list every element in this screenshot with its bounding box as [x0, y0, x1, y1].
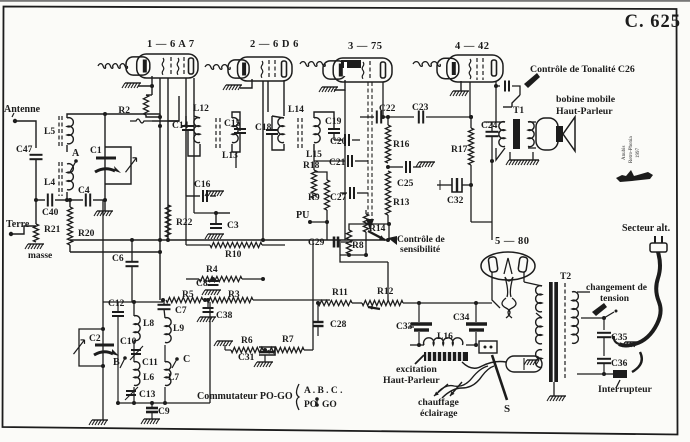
switch A arm — [70, 161, 76, 172]
inductor L5 — [67, 118, 73, 144]
wire L13 bottom — [232, 143, 240, 152]
potentiometer R14 wiper arrow — [368, 231, 385, 240]
junction x476 y303 — [474, 301, 478, 305]
svg-text:1 — 6 A 7: 1 — 6 A 7 — [147, 39, 195, 50]
svg-text:C36: C36 — [611, 359, 628, 369]
resistor R3 — [207, 297, 253, 302]
svg-text:Anubis: Anubis — [622, 146, 627, 161]
resistor R21 — [33, 224, 38, 242]
heater twisted pair V2 — [205, 65, 230, 70]
svg-text:C25: C25 — [397, 179, 414, 189]
svg-text:C6: C6 — [112, 254, 124, 264]
tube V2 plate — [282, 61, 287, 77]
switch C contact — [175, 357, 179, 361]
wire V2 plate lead — [283, 81, 285, 116]
junction x216 y213 — [214, 211, 218, 215]
svg-text:Terre: Terre — [6, 219, 30, 230]
wire C23 right — [426, 116, 471, 118]
tube V1 grid wavy 2 — [177, 58, 179, 75]
capacitor C9 — [146, 407, 158, 410]
wire L4 bottom — [66, 192, 68, 200]
svg-text:L6: L6 — [143, 373, 154, 383]
tube V1 grid wavy electrode — [162, 58, 164, 75]
junction R2 bus — [158, 115, 162, 119]
loudspeaker — [536, 118, 558, 150]
junction x419 y303 — [417, 301, 421, 305]
svg-text:L5: L5 — [44, 127, 55, 137]
C10 frame — [133, 341, 135, 344]
junction R20 top — [68, 198, 72, 202]
wire R7 right — [304, 349, 313, 351]
interrupteur pointer — [616, 380, 620, 388]
junction C28 top — [316, 301, 320, 305]
wire x160 long — [159, 114, 161, 300]
junction R14 bot — [364, 253, 368, 257]
wire C28 up — [317, 303, 319, 322]
capacitor C3 — [210, 223, 222, 225]
tube V4 grid dashed 1 — [476, 58, 478, 80]
T2 sec wires — [536, 313, 542, 318]
junction V1 cathode — [150, 84, 154, 88]
junction L16 left — [417, 343, 421, 347]
junction C9 top — [150, 401, 154, 405]
wire C16 right — [210, 195, 216, 197]
wire L15 top — [314, 112, 334, 129]
transformer T1 core — [513, 119, 520, 149]
inductor L6 — [134, 362, 140, 386]
inductor L4 — [67, 164, 73, 190]
C2 trimmer — [74, 340, 85, 354]
junction x168 y240 — [166, 238, 170, 242]
T2 primary — [572, 292, 578, 344]
wire T1 gnd a — [509, 152, 511, 160]
wire C9 leads — [151, 403, 153, 408]
svg-text:Secteur alt.: Secteur alt. — [622, 223, 671, 234]
junction antenna bottom — [34, 198, 38, 202]
svg-text:S: S — [504, 403, 510, 415]
wire to interrupteur — [604, 373, 613, 375]
tube V2 envelope — [238, 57, 293, 81]
svg-text:R12: R12 — [377, 287, 394, 297]
wire R4 left — [186, 278, 199, 280]
wire V2 lead x268 — [267, 81, 269, 112]
logo anubis silhouette — [616, 170, 653, 182]
wire C34 down — [475, 332, 477, 345]
wire T1 prim bot — [496, 148, 505, 160]
svg-text:L8: L8 — [143, 319, 154, 329]
svg-text:C3: C3 — [227, 221, 239, 231]
junction V2 x263 y240 — [261, 238, 265, 242]
svg-text:C4: C4 — [78, 186, 90, 196]
junction L6 bot — [132, 401, 136, 405]
svg-text:C15: C15 — [224, 119, 241, 129]
resistor R14 — [363, 214, 368, 232]
capacitor C7 — [158, 304, 171, 306]
svg-text:bobine mobile: bobine mobile — [556, 94, 616, 105]
lamp twisted lead — [462, 362, 506, 369]
wire C27 right — [357, 192, 368, 194]
wire C12 up — [117, 302, 119, 312]
mains plug — [650, 243, 667, 252]
tube V1 plate — [189, 58, 194, 74]
svg-text:L16: L16 — [437, 332, 453, 342]
svg-text:C1: C1 — [90, 146, 102, 156]
wire R9 top — [314, 172, 327, 180]
C1 frame right — [105, 147, 131, 184]
svg-text:C38: C38 — [216, 311, 233, 321]
svg-text:masse: masse — [28, 251, 52, 261]
switch tone control — [512, 95, 520, 107]
capacitor C23 — [418, 111, 420, 124]
tube V3 plate — [381, 62, 386, 78]
tube V5 filament — [504, 258, 512, 274]
ground below C2 — [92, 419, 108, 421]
svg-text:Antenne: Antenne — [4, 104, 41, 115]
inductor L14 primary — [278, 118, 284, 143]
PO-GO dumbbell — [315, 397, 319, 401]
wire bus y240 — [70, 239, 388, 241]
wire x194 down — [193, 116, 195, 213]
T2 sec top wire — [524, 282, 542, 286]
resistor R11 — [318, 300, 352, 305]
svg-text:3 — 75: 3 — 75 — [348, 41, 383, 52]
svg-text:C32: C32 — [447, 196, 464, 206]
svg-text:C13: C13 — [139, 390, 156, 400]
wire R6 left — [224, 345, 226, 350]
ground C3 — [208, 233, 224, 235]
ground C8 — [205, 289, 221, 291]
resistor R9 — [324, 180, 329, 210]
wire C31 gnd — [264, 355, 266, 362]
capacitor C10 trimmer — [131, 349, 141, 351]
connector box — [479, 341, 497, 353]
svg-text:C11: C11 — [142, 358, 158, 368]
wire tap down — [603, 318, 605, 330]
lamp hatch — [527, 359, 539, 361]
junction C12 bot — [116, 401, 120, 405]
tube V5 envelope — [481, 252, 535, 280]
capacitor C22 — [376, 111, 378, 124]
resistor R8 — [346, 230, 351, 254]
ground C16 — [208, 190, 224, 192]
wire C6 up — [131, 240, 133, 262]
wire V3 lead x345 — [344, 90, 346, 240]
svg-text:C40: C40 — [42, 208, 59, 218]
capacitor C47 — [30, 154, 43, 156]
wire L9-L7 — [164, 345, 166, 362]
switch C arm — [172, 359, 177, 368]
svg-text:C9: C9 — [158, 407, 170, 417]
wire C40 left — [36, 199, 45, 201]
svg-text:chauffage: chauffage — [418, 397, 459, 408]
svg-text:L7: L7 — [168, 373, 179, 383]
junction C25 — [386, 165, 390, 169]
chauffage arrow 1 — [434, 384, 448, 396]
svg-text:C27: C27 — [330, 193, 347, 203]
wire R8 bottom row — [340, 254, 366, 256]
capacitor C33 symbol — [411, 322, 432, 325]
svg-text:R22: R22 — [176, 218, 193, 228]
T2 secondary mid — [536, 318, 542, 344]
wire y302 osc — [103, 301, 163, 303]
svg-text:R6: R6 — [241, 336, 253, 346]
svg-text:Contrôle de Tonalité C26: Contrôle de Tonalité C26 — [530, 64, 635, 75]
V5 filament twisted leads — [505, 277, 513, 297]
wire C20 right — [352, 139, 360, 141]
wire x389 y224-240 — [388, 224, 390, 240]
svg-text:C47: C47 — [16, 145, 33, 155]
svg-text:C31: C31 — [238, 353, 255, 363]
wire R2 bottom to bus — [146, 115, 160, 117]
PU terminal — [308, 220, 312, 224]
heater twisted pair V1 — [98, 64, 127, 69]
capacitor C4 — [85, 194, 87, 207]
junction y126 — [158, 124, 162, 128]
wire C4 right — [93, 199, 105, 201]
resistor R18 vertical — [311, 170, 316, 198]
resistor R2 — [143, 95, 148, 115]
wire C8 up — [212, 279, 214, 281]
junction R8 bot — [347, 253, 351, 257]
V5 anode left lead — [492, 272, 500, 308]
C2 frame — [79, 329, 103, 366]
wire HT from R12 row — [476, 302, 492, 304]
wire R4 right — [242, 278, 263, 280]
tube V3 grid dashed — [369, 61, 371, 80]
svg-text:5 — 80: 5 — 80 — [495, 236, 530, 247]
resistor R12 — [362, 300, 403, 305]
resistor R13 — [385, 171, 390, 215]
wire x313 down — [312, 240, 314, 350]
capacitor C32 symbol — [452, 178, 462, 192]
junction tap — [602, 316, 606, 320]
wire C25 right — [413, 166, 421, 168]
commutateur brace — [297, 384, 300, 410]
svg-text:C12: C12 — [108, 299, 125, 309]
wire L12 bottom — [188, 140, 200, 156]
junction C8 top — [211, 277, 215, 281]
L5 core dashes — [58, 116, 60, 146]
wire C25 left — [388, 166, 403, 168]
tube V2 grid dashed 1 — [268, 60, 270, 79]
wire R4 top link — [216, 212, 230, 214]
capacitor C26 — [504, 81, 506, 92]
svg-text:C34: C34 — [453, 313, 470, 323]
C1 trimmer — [126, 158, 137, 172]
switch B arm — [120, 358, 125, 368]
wire R10 left — [186, 244, 210, 246]
wire x186 down — [185, 116, 187, 196]
wire C1 gnd — [104, 200, 106, 211]
T2 primary tap wire — [581, 317, 604, 319]
svg-text:R11: R11 — [332, 288, 348, 298]
junction C2 top — [101, 327, 105, 331]
wire C7-L9 — [164, 309, 165, 318]
svg-text:C: C — [183, 354, 190, 365]
svg-text:changement de: changement de — [586, 283, 647, 293]
capacitor C18 — [266, 129, 278, 131]
svg-text:R13: R13 — [393, 198, 410, 208]
T2 primary top wire — [577, 291, 590, 293]
ground below R21 — [28, 243, 44, 245]
wire C9 gnd — [151, 412, 153, 419]
wire R9 down — [326, 222, 328, 240]
junction L4 bottom — [65, 198, 69, 202]
capacitor C35 — [597, 332, 611, 334]
wire R11-R12 — [352, 302, 362, 304]
svg-text:R21: R21 — [44, 225, 61, 235]
capacitor C29 — [333, 237, 336, 248]
svg-text:GO: GO — [322, 400, 337, 410]
chauffage arrow 2 — [450, 382, 462, 396]
wire V3 plate lead down — [382, 82, 384, 117]
wire y114 to bus — [105, 113, 160, 115]
svg-text:T1: T1 — [513, 106, 524, 116]
wire V1 lead down x168 — [167, 78, 169, 240]
sensibilite pointer arrow — [388, 236, 397, 245]
wire C7 up — [163, 300, 165, 305]
T2 secondary top — [536, 286, 542, 312]
junction L16 right — [474, 343, 478, 347]
junction C24 bottom — [490, 159, 494, 163]
junction L8 top — [132, 300, 136, 304]
T2 core dashes — [564, 283, 566, 380]
capacitor C14 — [182, 125, 194, 127]
wire C19-C20 — [333, 133, 335, 140]
wire C6 down — [131, 266, 133, 302]
wire C27 left — [340, 192, 347, 194]
R6 left gnd — [217, 340, 233, 342]
capacitor C31 symbol — [259, 347, 275, 355]
svg-text:C21: C21 — [329, 158, 346, 168]
IFT2 core a — [297, 118, 299, 150]
tube V3 dark diode plates — [341, 60, 361, 68]
T2 primary bottom wire — [577, 373, 604, 375]
tube V2 grid wavy — [261, 61, 263, 78]
wire x103 osc — [102, 200, 104, 420]
wire x186 mid — [185, 196, 187, 245]
wire C28 down — [317, 326, 319, 336]
wire C36 down — [603, 364, 605, 374]
svg-text:R17: R17 — [451, 145, 468, 155]
capacitor C28 — [313, 321, 324, 323]
wire R16 top — [387, 117, 389, 125]
junction C2 bottom — [101, 364, 105, 368]
capacitor C12 — [112, 311, 124, 313]
wire PU — [310, 221, 327, 223]
cable branch to interrupteur — [632, 352, 642, 372]
junction R4 x263 — [261, 277, 265, 281]
antenna terminal — [13, 119, 17, 123]
wire R6l — [225, 349, 231, 351]
wire T1 sec top — [528, 121, 536, 123]
resistor R5 — [166, 297, 203, 302]
svg-text:R8: R8 — [352, 241, 364, 251]
wire R8 bottom — [348, 254, 350, 255]
S pointer line — [492, 355, 507, 400]
L5 core dashes 2 — [61, 116, 63, 146]
T1 primary — [499, 122, 505, 147]
wire R12 right — [403, 302, 476, 304]
svg-text:Retro-Phonia: Retro-Phonia — [629, 136, 634, 163]
wire L8-L6 — [133, 344, 135, 362]
tube V2 grid dashed 2 — [274, 60, 276, 79]
svg-text:Haut-Parleur: Haut-Parleur — [556, 106, 613, 117]
svg-text:Haut-Parleur: Haut-Parleur — [383, 375, 440, 386]
wire R14 top — [365, 210, 367, 214]
capacitor C1 variable — [96, 157, 116, 160]
svg-text:R20: R20 — [78, 229, 95, 239]
svg-text:B: B — [113, 357, 120, 368]
svg-text:C. 625: C. 625 — [625, 12, 681, 32]
wire R17 top — [470, 117, 472, 128]
resistor R17 — [468, 128, 473, 165]
tube V3 envelope — [333, 58, 392, 82]
page top edge strip — [0, 0, 690, 2]
junction x105 y114 — [103, 112, 107, 116]
resistor R10 — [210, 242, 262, 247]
wire R14 bottom — [365, 232, 367, 255]
junction R5R3 — [203, 298, 207, 302]
capacitor C40 — [47, 194, 49, 207]
resistor R20 — [67, 207, 72, 245]
junction C7 top — [161, 298, 165, 302]
wire V4 grid lead — [469, 82, 471, 117]
wire C34 up — [475, 303, 477, 322]
wire C35 hatch — [611, 343, 631, 345]
wire antenna to C47 — [15, 121, 36, 148]
tube V5 anode right — [518, 257, 528, 273]
svg-text:excitation: excitation — [396, 364, 437, 375]
junction R16 top — [386, 115, 390, 119]
wire terre — [11, 226, 36, 234]
wire L6 down — [133, 387, 135, 403]
svg-text:C16: C16 — [194, 180, 211, 190]
svg-text:Contrôle de: Contrôle de — [397, 235, 445, 245]
wire L5 bottom — [66, 145, 68, 152]
R12 wiper arrow — [368, 307, 380, 309]
svg-text:L9: L9 — [173, 324, 184, 334]
capacitor C38 — [203, 307, 214, 309]
wire V1 lead k down — [151, 86, 153, 95]
wire L8 top — [133, 302, 135, 316]
wire bottom osc row — [118, 402, 210, 404]
wire L15 bot — [313, 144, 315, 152]
wire R20 to bus — [70, 251, 160, 253]
tube V4 grid dashed 2 — [482, 58, 484, 80]
wire L12 top — [194, 116, 200, 118]
wire L7 down — [164, 387, 166, 403]
tube V1 grid dashed 1 — [170, 57, 172, 76]
capacitor C25 — [405, 161, 407, 173]
wire T1 gnd b — [532, 152, 534, 160]
wire C38 up — [207, 300, 209, 308]
wire C21 left — [314, 160, 345, 162]
wire C24 top link — [484, 121, 496, 123]
wire L4-C4 — [67, 199, 83, 201]
AVC arrowhead — [366, 219, 374, 230]
wire C22 left — [360, 116, 374, 118]
svg-text:C18: C18 — [255, 123, 272, 133]
wire grid hop — [130, 119, 152, 123]
wire C21 right — [355, 160, 368, 162]
wire V4 cathode gnd — [460, 81, 462, 91]
wire C35 down — [603, 338, 605, 356]
switch B contact — [123, 356, 127, 360]
wire bracket x179 — [168, 96, 179, 121]
svg-text:R4: R4 — [206, 265, 218, 275]
junction R9 bottom — [325, 220, 329, 224]
